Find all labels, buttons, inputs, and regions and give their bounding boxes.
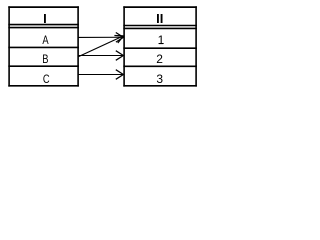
left table bottom border — [8, 85, 79, 87]
right table top border — [123, 6, 197, 8]
arrow A to 1 open head — [116, 33, 124, 43]
arrow C to 3 shaft — [79, 74, 124, 76]
left table top border — [8, 6, 79, 8]
svg-text:3: 3 — [156, 72, 163, 86]
arrow B to 1 open head — [114, 36, 123, 44]
arrow B to 2 shaft — [79, 55, 124, 57]
row label 1 base serif bar — [159, 43, 164, 44]
arrow A to 1 shaft — [79, 36, 124, 38]
arrow C to 3 open head — [116, 70, 124, 80]
arrow B to 1 diagonal shaft — [79, 36, 124, 57]
left table right border — [77, 6, 79, 86]
left table row separator A/B — [8, 46, 79, 48]
right table header double rule upper line — [123, 25, 197, 27]
svg-text:2: 2 — [156, 52, 163, 66]
svg-text:I: I — [43, 11, 47, 26]
right table row separator 1/2 — [123, 47, 197, 49]
left table left border — [8, 6, 10, 86]
right table left border — [123, 6, 125, 86]
svg-text:A: A — [42, 34, 49, 47]
background — [0, 0, 202, 92]
svg-text:1: 1 — [158, 33, 165, 47]
arrow B to 2 open head — [116, 51, 124, 61]
right table header double rule lower line — [123, 27, 197, 29]
right table bottom border — [123, 85, 197, 87]
left table header double rule lower line — [8, 27, 79, 29]
svg-text:II: II — [156, 11, 163, 26]
svg-text:B: B — [42, 53, 48, 66]
left table header double rule upper line — [8, 24, 79, 26]
right table row separator 2/3 — [123, 65, 197, 67]
right table right border — [195, 6, 197, 86]
svg-text:C: C — [43, 73, 50, 86]
left table row separator B/C — [8, 65, 79, 67]
